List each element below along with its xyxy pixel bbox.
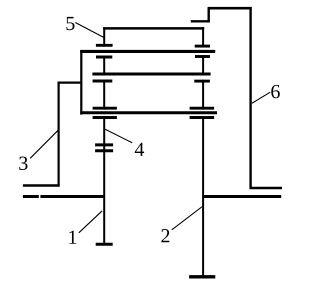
- leader line to coupling 4: [105, 129, 132, 143]
- arm 3 lower horizontal: [23, 184, 60, 187]
- gear ring line C (bottom mesh): [80, 111, 217, 114]
- housing 6 bottom bearing line: [250, 187, 283, 190]
- shaft 2 end bar: [189, 275, 215, 278]
- gear ring line A (top mesh): [80, 50, 215, 53]
- housing 6 step vertical: [207, 7, 209, 22]
- shaft 1 end bar: [96, 243, 113, 246]
- shaft 2 segment above line A: [202, 27, 204, 47]
- gear bar on shaft 1 above line C: [93, 107, 117, 110]
- label 5: [66, 17, 74, 30]
- shaft 2 segment between line B and line C: [202, 80, 204, 110]
- gear ring line B (middle mesh): [92, 73, 210, 76]
- leader line to shaft 1: [79, 211, 102, 233]
- leader line to housing 6: [252, 92, 270, 103]
- coupling 4 upper half bar: [95, 143, 113, 146]
- leader line to shaft 2: [172, 206, 203, 230]
- leader line to arm 3: [30, 130, 58, 158]
- shaft 2 segment between line A and line B: [202, 55, 204, 75]
- housing 6 internal gear bar: [191, 20, 210, 22]
- bearing flange on shaft 1, right segment: [40, 195, 104, 198]
- gear bar on shaft 2 below line B: [194, 80, 210, 83]
- housing 6 right vertical: [249, 7, 251, 189]
- gear bar on shaft 2 above line C: [190, 107, 215, 110]
- gear bar on shaft 2 below line A: [195, 55, 210, 58]
- carrier left vertical: [80, 50, 82, 115]
- shaft 2 segment below line C: [202, 116, 204, 277]
- shaft 1 segment between line A and line B: [103, 56, 105, 76]
- gear bar on shaft 2 below line C: [190, 116, 215, 119]
- housing 6 top horizontal: [208, 7, 252, 10]
- shaft 1 segment below line C: [103, 116, 105, 244]
- gear bar on shaft 2 above line A: [195, 45, 210, 48]
- bearing flange on shaft 1, left segment: [23, 195, 39, 198]
- arm 3 vertical: [57, 82, 59, 187]
- label 1: [69, 231, 76, 244]
- label 3: [19, 157, 27, 170]
- coupling 4 lower half bar: [95, 149, 113, 152]
- shaft 1 segment above line A: [103, 27, 105, 47]
- label 2: [161, 229, 169, 242]
- arm 3 upper horizontal: [58, 81, 83, 83]
- leader line to shaft 1 top: [75, 23, 104, 38]
- gear bar on shaft 1 above line A: [96, 44, 113, 47]
- gear bar on shaft 1 below line B: [93, 80, 113, 83]
- bearing flange on shaft 2: [202, 195, 281, 198]
- label 4: [135, 143, 144, 156]
- label 6: [271, 85, 280, 98]
- gear bar on shaft 1 below line C: [93, 116, 117, 119]
- top link bar from shaft 1 to shaft 2: [103, 27, 204, 30]
- gear bar on shaft 1 below line A: [96, 56, 112, 59]
- shaft 1 segment between line B and line C: [103, 80, 105, 110]
